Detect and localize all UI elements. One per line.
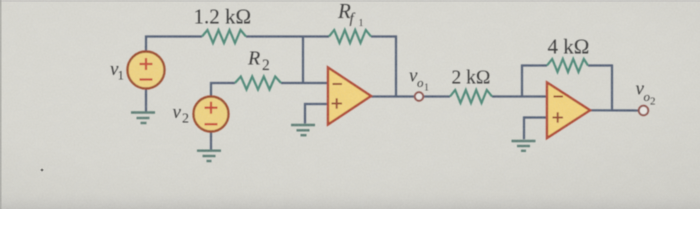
- wire: R2 to op-amp U1 inverting input: [281, 82, 328, 84]
- wire: junction vertical from top rail to inverting input line: [302, 37, 304, 84]
- wire: v2 bottom to ground: [210, 131, 212, 149]
- wire: node vo1 to 2k resistor: [424, 95, 451, 97]
- wire: U1 output to node vo1: [371, 95, 415, 97]
- ground below v1: [131, 113, 155, 124]
- resistor R2: [235, 77, 281, 90]
- resistor 1.2 kOhm: [202, 30, 246, 43]
- label vo2: [636, 79, 656, 108]
- ground at U1 non-inverting input: [291, 125, 315, 135]
- resistor 4 kOhm: [547, 59, 588, 72]
- source v2: [194, 97, 229, 132]
- wire: U1 non-inverting input to ground drop: [305, 104, 328, 124]
- wire: 1.2k resistor to Rf1 resistor: [246, 35, 329, 37]
- label vo1: [409, 66, 429, 94]
- wire: U2 non-inverting input to ground drop: [524, 118, 547, 140]
- wire: 4k to corner down to U2 output: [588, 66, 612, 111]
- op-amp U1: [328, 68, 371, 125]
- resistor 2 kOhm: [450, 90, 492, 103]
- wire: v1 top to 1.2k resistor (top rail left): [146, 37, 202, 52]
- wire: v2 top corner to R2: [211, 83, 235, 97]
- resistor Rf1 (feedback of U1): [329, 30, 371, 43]
- wire: U2 output to node vo2: [590, 109, 639, 111]
- ground at U2 non-inverting input: [512, 141, 536, 151]
- ground below v2: [197, 151, 221, 161]
- op-amp U2: [547, 83, 590, 139]
- label R2: [247, 48, 270, 75]
- node vo1 terminal: [415, 92, 423, 100]
- source v1: [128, 52, 165, 89]
- wire: U2 feedback loop up and over: [522, 66, 547, 97]
- label v1: [110, 59, 124, 83]
- wire: Rf1 to feedback corner, down to op-amp output: [371, 37, 396, 97]
- wire: 2k resistor to U2 inverting input: [492, 95, 547, 97]
- label Rf1: [337, 0, 364, 29]
- node vo2 terminal: [639, 106, 648, 115]
- label v2: [173, 102, 190, 127]
- dust speck: [41, 169, 44, 172]
- wire: v1 bottom to ground: [145, 89, 147, 112]
